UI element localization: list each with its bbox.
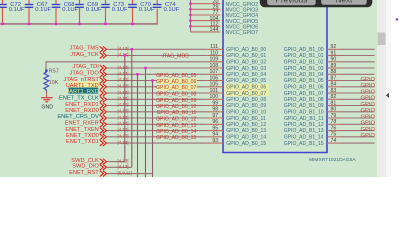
capacitor C72 0.1UF (0, 0, 25, 25)
button Previous (267, 0, 316, 5)
svg-text:GPIO_AD_B0_08: GPIO_AD_B0_08 (156, 92, 196, 98)
svg-text:[4,13]: [4,13] (118, 102, 129, 107)
svg-text:GPIO: GPIO (361, 121, 376, 127)
svg-text:GPIO_AD_B0_05: GPIO_AD_B0_05 (226, 78, 266, 84)
svg-text:107: 107 (210, 69, 219, 75)
net label ENET_TXEN with off-page connector (65, 127, 106, 134)
svg-text:Previous: Previous (275, 0, 307, 4)
svg-text:0.1UF: 0.1UF (35, 7, 51, 13)
pin 83 GPIO_AD_B1_07 wire row (284, 88, 376, 97)
svg-text:GPIO_AD_B0_11: GPIO_AD_B0_11 (226, 116, 266, 122)
svg-text:100: 100 (210, 94, 219, 100)
net label ENET_CRS_DV with off-page connector (57, 114, 106, 121)
svg-text:MIMXRT1021DAG5A: MIMXRT1021DAG5A (309, 157, 356, 163)
svg-text:93: 93 (212, 138, 218, 144)
net label SWD_CLK bottom row (71, 158, 128, 165)
svg-text:GPIO_AD_B0_11: GPIO_AD_B0_11 (156, 110, 196, 116)
svg-text:ENET_RST: ENET_RST (69, 170, 99, 176)
wire vertical JTAG_TDO drop (136, 73, 139, 177)
svg-text:SWD_DIO: SWD_DIO (72, 164, 99, 170)
pin 93 GPIO_AD_B0_15 wire row (107, 138, 267, 147)
power pin 77 NVCC_GPIO4 (191, 10, 259, 19)
pin 81 GPIO_AD_B1_09 wire row (284, 101, 376, 110)
net label JTAG_MOD (162, 53, 190, 59)
svg-text:GPIO_AD_B1_06: GPIO_AD_B1_06 (284, 85, 324, 91)
pin 82 GPIO_AD_B1_08 wire row (284, 94, 376, 103)
svg-text:GPIO_AD_B1_07: GPIO_AD_B1_07 (284, 91, 324, 97)
svg-text:84: 84 (331, 82, 337, 88)
svg-text:[4,13]: [4,13] (118, 109, 129, 114)
net label ENET_TXD0 with off-page connector (66, 133, 106, 140)
svg-text:10K: 10K (49, 80, 59, 86)
svg-text:74: 74 (331, 138, 337, 144)
svg-text:JTAG_TDO: JTAG_TDO (70, 71, 100, 77)
pin 101 GPIO_AD_B0_07 wire row (107, 88, 269, 97)
svg-text:[4,13]: [4,13] (118, 90, 129, 95)
svg-text:GPIO_AD_B1_13: GPIO_AD_B1_13 (284, 128, 324, 134)
svg-text:144: 144 (210, 27, 219, 33)
svg-text:GPIO_AD_B1_12: GPIO_AD_B1_12 (284, 122, 324, 128)
net label SWD_DIO bottom row (72, 164, 132, 171)
svg-text:GPIO_AD_B0_05: GPIO_AD_B0_05 (156, 73, 196, 79)
net label GPIO_AD_B0_13 on wire (156, 123, 196, 129)
svg-text:GPIO_AD_B0_04: GPIO_AD_B0_04 (226, 72, 266, 78)
svg-text:GPIO_AD_B0_12: GPIO_AD_B0_12 (156, 117, 196, 123)
pin 105 GPIO_AD_B0_06 wire row (107, 82, 269, 91)
svg-text:[4,13]: [4,13] (118, 127, 129, 132)
IC U1 MIMXRT1021DAG5A body outline (223, 0, 327, 153)
pin 87 GPIO_AD_B1_05 wire row (284, 76, 376, 85)
svg-text:83: 83 (331, 88, 337, 94)
pin 109 GPIO_AD_B0_02 wire row (46, 57, 266, 71)
svg-text:0.1UF: 0.1UF (139, 7, 155, 13)
net label GPIO_AD_B0_14 on wire (156, 129, 196, 135)
svg-text:GPIO_AD_B1_15: GPIO_AD_B1_15 (284, 141, 324, 147)
svg-text:76: 76 (331, 126, 337, 132)
wire vertical JTAG_TMS / SWD_DIO (130, 48, 133, 167)
svg-text:91: 91 (331, 50, 337, 56)
svg-text:JTAG_TDI: JTAG_TDI (72, 64, 99, 70)
svg-text:108: 108 (210, 63, 219, 69)
svg-text:0.1UF: 0.1UF (86, 7, 102, 13)
svg-text:GPIO_AD_B0_12: GPIO_AD_B0_12 (226, 122, 266, 128)
pin 97 GPIO_AD_B0_11 wire row (107, 113, 266, 122)
power pin 144 NVCC_GPIO7 (191, 27, 259, 36)
svg-text:[4,13]: [4,13] (118, 96, 129, 101)
svg-text:88: 88 (331, 69, 337, 75)
net label JTAG_TCK with off-page connector (70, 52, 106, 59)
svg-text:105: 105 (210, 82, 219, 88)
net label JTAG_nTRST with off-page connector (64, 77, 107, 84)
svg-text:0.1UF: 0.1UF (164, 7, 180, 13)
svg-text:GPIO_AD_B0_14: GPIO_AD_B0_14 (226, 135, 266, 141)
svg-text:JTAG_TCK: JTAG_TCK (70, 52, 99, 58)
net label GPIO_AD_B0_15 on wire (156, 135, 196, 141)
svg-text:98: 98 (212, 107, 218, 113)
svg-text:110: 110 (210, 50, 218, 56)
pin 79 GPIO_AD_B1_11 wire row (284, 113, 375, 122)
svg-text:[4,13]: [4,13] (118, 52, 129, 57)
svg-text:[4,13]: [4,13] (118, 65, 129, 70)
net label JTAG_TDO with off-page connector (70, 71, 107, 78)
artifact fringe along chip edge (220, 0, 222, 153)
svg-text:94: 94 (212, 132, 218, 138)
svg-text:GPIO_AD_B1_14: GPIO_AD_B1_14 (284, 135, 324, 141)
net label GPIO_AD_B0_05 on wire (156, 73, 196, 79)
page margin white (377, 0, 399, 177)
net label GPIO_AD_B0_11 on wire (156, 110, 196, 116)
svg-text:GPIO_AD_B0_00: GPIO_AD_B0_00 (226, 47, 266, 53)
pin 94 GPIO_AD_B0_14 wire row (107, 132, 267, 141)
svg-text:82: 82 (331, 94, 337, 100)
svg-text:[6,9,11]: [6,9,11] (118, 170, 132, 175)
net label GPIO_AD_B0_08 on wire (156, 92, 196, 98)
svg-text:[4,13]: [4,13] (118, 140, 129, 145)
svg-text:0.1UF: 0.1UF (9, 7, 25, 13)
svg-text:78: 78 (331, 119, 337, 125)
net label ENET_TX_CLK with off-page connector (59, 96, 106, 103)
svg-text:GPIO_AD_B1_01: GPIO_AD_B1_01 (284, 53, 324, 59)
svg-text:GPIO_AD_B1_09: GPIO_AD_B1_09 (284, 103, 324, 109)
svg-text:90: 90 (331, 57, 337, 63)
value label MIMXRT1021DAG5A (309, 157, 356, 163)
svg-text:Next: Next (335, 0, 353, 4)
svg-text:[4,13]: [4,13] (118, 71, 129, 76)
svg-text:80: 80 (331, 107, 337, 113)
pin 92 GPIO_AD_B1_00 wire row (284, 44, 375, 53)
svg-text:ENET_TXD0: ENET_TXD0 (66, 133, 99, 139)
svg-text:GPIO_AD_B0_15: GPIO_AD_B0_15 (226, 141, 266, 147)
svg-text:GPIO_AD_B1_05: GPIO_AD_B1_05 (284, 78, 324, 84)
wire vertical JTAG_TDI drop (144, 67, 147, 177)
svg-text:GPIO_AD_B0_14: GPIO_AD_B0_14 (156, 129, 196, 135)
svg-text:GPIO_AD_B0_02: GPIO_AD_B0_02 (226, 60, 266, 66)
viewer overlay toolbar (260, 0, 373, 7)
net label GPIO_AD_B0_06 on wire (156, 79, 197, 85)
svg-text:GPIO_AD_B1_11: GPIO_AD_B1_11 (284, 116, 324, 122)
pin 90 GPIO_AD_B1_02 wire row (284, 57, 375, 66)
net label GPIO_AD_B0_07 on wire (156, 85, 197, 91)
pin 107 GPIO_AD_B0_04 wire row (107, 69, 267, 78)
pin 91 GPIO_AD_B1_01 wire row (284, 50, 375, 59)
net label GPIO_AD_B0_12 on wire (156, 117, 196, 123)
NVCC power rail vertical wire (189, 0, 192, 32)
svg-text:GPIO_AD_B0_01: GPIO_AD_B0_01 (226, 53, 266, 59)
svg-text:R57: R57 (49, 69, 59, 75)
power pin 20 NVCC_GPIO2 (191, 0, 259, 8)
pin 108 GPIO_AD_B0_03 wire row (107, 63, 267, 72)
svg-text:[4,13]: [4,13] (118, 77, 129, 82)
svg-text:92: 92 (331, 44, 337, 50)
svg-text:81: 81 (331, 101, 337, 107)
svg-text:75: 75 (331, 132, 337, 138)
pin 80 GPIO_AD_B1_10 wire row (284, 107, 376, 116)
net label UART1_RXD with off-page connector (65, 88, 106, 97)
svg-text:GPIO_AD_B0_10: GPIO_AD_B0_10 (156, 104, 196, 110)
pin 95 GPIO_AD_B0_13 wire row (107, 126, 267, 135)
capacitor C73 0.1UF (101, 0, 128, 25)
net label UART1_TXD with off-page connector (66, 82, 107, 90)
net label ENET_RXER with off-page connector (65, 121, 107, 128)
svg-text:GPIO_AD_B1_10: GPIO_AD_B1_10 (284, 110, 324, 116)
net label ENET_RXD0 with off-page connector (65, 108, 106, 115)
svg-text:99: 99 (212, 101, 218, 107)
power pin 104 NVCC_GPIO5 (191, 16, 259, 25)
svg-text:106: 106 (210, 76, 219, 82)
svg-text:GPIO: GPIO (361, 77, 376, 83)
svg-text:ENET_RXD1: ENET_RXD1 (65, 102, 99, 108)
pin 110 GPIO_AD_B0_01 wire row (107, 50, 267, 59)
pin 111 GPIO_AD_B0_00 wire row (107, 44, 267, 53)
svg-text:JTAG_MOD: JTAG_MOD (162, 53, 190, 59)
sidebar collapse arrow (386, 93, 389, 98)
svg-text:ENET_TX_CLK: ENET_TX_CLK (59, 96, 99, 102)
svg-text:GPIO: GPIO (361, 127, 376, 133)
pin 84 GPIO_AD_B1_06 wire row (284, 82, 376, 91)
svg-text:GPIO_AD_B0_03: GPIO_AD_B0_03 (226, 66, 266, 72)
pin 78 GPIO_AD_B1_12 wire row (284, 119, 376, 128)
svg-text:UART1_RXD: UART1_RXD (65, 89, 99, 95)
svg-text:87: 87 (331, 76, 337, 82)
scrollbar thumb (378, 33, 386, 46)
capacitor C74 0.1UF (153, 0, 180, 13)
svg-text:NVCC_GPIO7: NVCC_GPIO7 (226, 30, 259, 36)
svg-text:GPIO_AD_B1_08: GPIO_AD_B1_08 (284, 97, 324, 103)
svg-text:109: 109 (210, 57, 219, 63)
button Next (321, 0, 367, 5)
net label JTAG_TDI with off-page connector (72, 64, 106, 71)
svg-text:[4,13]: [4,13] (118, 134, 129, 139)
pin 100 GPIO_AD_B0_08 wire row (107, 94, 267, 103)
pin 74 GPIO_AD_B1_15 wire row (284, 138, 375, 147)
svg-text:101: 101 (210, 88, 219, 94)
resistor R57 10K (44, 69, 59, 92)
net label GPIO_AD_B0_09 on wire (156, 98, 196, 104)
svg-text:GPIO_AD_B0_09: GPIO_AD_B0_09 (226, 103, 266, 109)
svg-text:ENET_RXER: ENET_RXER (65, 121, 99, 127)
svg-text:GPIO_AD_B0_08: GPIO_AD_B0_08 (226, 97, 266, 103)
pin 88 GPIO_AD_B1_04 wire row (284, 69, 375, 78)
svg-text:GPIO_AD_B0_06: GPIO_AD_B0_06 (226, 85, 266, 91)
svg-text:[4,13]: [4,13] (118, 164, 129, 169)
svg-text:96: 96 (212, 119, 218, 125)
power pin 29 NVCC_GPIO3 (191, 4, 259, 13)
svg-text:GPIO_AD_B1_02: GPIO_AD_B1_02 (284, 60, 324, 66)
svg-text:GPIO_AD_B0_13: GPIO_AD_B0_13 (226, 128, 266, 134)
svg-text:GPIO_AD_B1_03: GPIO_AD_B1_03 (284, 66, 324, 72)
svg-text:97: 97 (212, 113, 218, 119)
scrollbar track (377, 0, 391, 177)
pin 106 GPIO_AD_B0_05 wire row (107, 76, 267, 85)
wire vertical JTAG_TCK / SWD_CLK (123, 54, 126, 162)
net label GPIO_AD_B0_10 on wire (156, 104, 196, 110)
svg-text:89: 89 (331, 63, 337, 69)
svg-text:GPIO: GPIO (361, 114, 376, 120)
svg-text:[4,13]: [4,13] (118, 115, 129, 120)
power rail bus for decoupling caps (0, 9, 158, 24)
capacitor C67 0.1UF (25, 0, 52, 25)
pin 76 GPIO_AD_B1_13 wire row (284, 126, 376, 135)
svg-text:[4,13]: [4,13] (118, 84, 129, 89)
capacitor C70 0.1UF (128, 0, 155, 25)
net label JTAG_TMS with off-page connector (70, 46, 107, 53)
net label ENET_RXD1 with off-page connector (65, 102, 106, 109)
capacitor C68 0.1UF (52, 0, 79, 25)
svg-text:GPIO_AD_B0_09: GPIO_AD_B0_09 (156, 98, 196, 104)
svg-text:ENET_TXEN: ENET_TXEN (65, 127, 99, 133)
pin 99 GPIO_AD_B0_09 wire row (107, 101, 267, 110)
pin 75 GPIO_AD_B1_14 wire row (284, 132, 376, 141)
svg-text:GPIO: GPIO (361, 96, 376, 102)
svg-text:GPIO: GPIO (361, 83, 376, 89)
svg-text:GPIO_AD_B1_00: GPIO_AD_B1_00 (284, 47, 324, 53)
svg-text:GPIO: GPIO (361, 102, 376, 108)
svg-text:GPIO_AD_B1_04: GPIO_AD_B1_04 (284, 72, 324, 78)
svg-text:ENET_CRS_DV: ENET_CRS_DV (57, 114, 99, 120)
net label ENET_RST bottom row (69, 170, 152, 177)
svg-text:79: 79 (331, 113, 337, 119)
svg-text:GPIO_AD_B0_06: GPIO_AD_B0_06 (156, 79, 196, 85)
svg-text:ENET_TXD1: ENET_TXD1 (66, 139, 99, 145)
svg-text:0.1UF: 0.1UF (112, 7, 128, 13)
svg-text:GPIO: GPIO (361, 133, 376, 139)
power pin 112 NVCC_GPIO6 (191, 21, 259, 30)
svg-text:GPIO: GPIO (361, 89, 376, 95)
svg-text:GPIO: GPIO (361, 108, 376, 114)
svg-text:ENET_RXD0: ENET_RXD0 (65, 108, 99, 114)
svg-text:111: 111 (210, 44, 218, 50)
svg-text:95: 95 (212, 126, 218, 132)
svg-text:GPIO_AD_B0_10: GPIO_AD_B0_10 (226, 110, 266, 116)
svg-text:GPIO_AD_B0_15: GPIO_AD_B0_15 (156, 135, 196, 141)
svg-text:GPIO_AD_B0_07: GPIO_AD_B0_07 (226, 91, 266, 97)
pin 98 GPIO_AD_B0_10 wire row (107, 107, 267, 116)
pin 89 GPIO_AD_B1_03 wire row (284, 63, 375, 72)
capacitor C69 0.1UF (75, 0, 102, 25)
svg-text:GPIO_AD_B0_13: GPIO_AD_B0_13 (156, 123, 196, 129)
svg-text:JTAG_TMS: JTAG_TMS (70, 46, 99, 52)
svg-text:GND: GND (41, 104, 53, 110)
svg-text:[4,13]: [4,13] (118, 158, 129, 163)
purple link fragment (396, 18, 398, 20)
svg-text:[4,13]: [4,13] (118, 121, 129, 126)
pin 96 GPIO_AD_B0_12 wire row (107, 119, 267, 128)
svg-text:GPIO_AD_B0_07: GPIO_AD_B0_07 (156, 85, 196, 91)
wire vertical JTAG_nTRST / ENET_RST (151, 79, 154, 177)
svg-text:[4,13]: [4,13] (118, 46, 129, 51)
net label ENET_TXD1 with off-page connector (66, 139, 106, 146)
ground GND (41, 92, 53, 111)
